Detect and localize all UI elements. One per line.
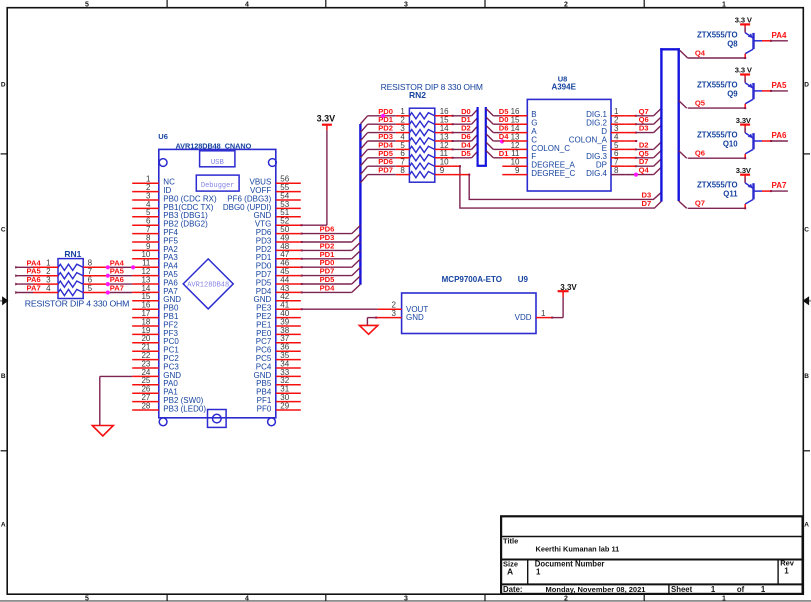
- svg-text:MCP9700A-ETO: MCP9700A-ETO: [442, 275, 502, 284]
- junction dot Q4 at U8 pin 8: [634, 173, 638, 177]
- bus bottom joint: [477, 165, 487, 167]
- border arrow left: [0, 297, 8, 304]
- U6 Debugger box: [196, 175, 239, 191]
- svg-text:D: D: [804, 82, 809, 89]
- wire PA6 RN1 pin 6 to U6: [83, 275, 132, 286]
- border arrow right: [803, 297, 811, 304]
- power symbol 3.3V for U9 VDD: [558, 283, 578, 297]
- svg-text:PA4: PA4: [772, 31, 788, 40]
- svg-text:U6: U6: [158, 132, 168, 141]
- wire U6 pin 24 GND: [100, 376, 132, 425]
- wire PD1 U6 pin 47 to bus: [301, 250, 361, 260]
- wire base Q11 to PA7 label: [762, 181, 788, 192]
- RN2 pin 11 stub: [435, 149, 478, 159]
- IC U9 MCP9700A-ETO body: [402, 293, 536, 334]
- svg-text:A: A: [507, 567, 513, 577]
- svg-text:ZTX555/TO: ZTX555/TO: [697, 30, 738, 39]
- wire PA7 RN1 pin 5 to U6: [83, 284, 132, 295]
- svg-text:Q7: Q7: [695, 199, 705, 208]
- U8 pin 4 unconnected stub end: [625, 140, 637, 142]
- svg-text:1: 1: [722, 2, 726, 9]
- wire PD5 U6 pin 44 to bus: [301, 275, 361, 285]
- svg-text:Keerthi Kumanan lab 11: Keerthi Kumanan lab 11: [536, 545, 620, 554]
- wire bus to U8 left pin 16: [486, 107, 509, 116]
- svg-text:Sheet: Sheet: [671, 585, 693, 594]
- wire PD2 bus to RN2 pin 3: [360, 124, 409, 141]
- IC U6 AVR128DB48_CNANO body: [159, 149, 276, 425]
- svg-text:1: 1: [784, 567, 789, 576]
- wire PD1 bus to RN2 pin 2: [360, 115, 409, 132]
- wire 3.3V to U6 VTG pin 52: [301, 130, 327, 226]
- svg-text:29: 29: [280, 401, 289, 410]
- svg-text:ZTX555/TO: ZTX555/TO: [697, 181, 738, 190]
- wire PA4 RN1 pin 8 to U6: [83, 258, 132, 269]
- wire PD3 U6 pin 49 to bus: [301, 233, 361, 243]
- bus right segment between RN2 and U8: [485, 107, 487, 166]
- ground symbol below U9: [359, 325, 377, 334]
- svg-text:COLON_C: COLON_C: [531, 144, 570, 153]
- svg-text:GND: GND: [406, 313, 424, 322]
- wire PD3 bus to RN2 pin 4: [360, 132, 409, 149]
- svg-text:Title: Title: [503, 537, 518, 546]
- resistor network RN2 body: [409, 108, 434, 182]
- svg-text:D3: D3: [641, 190, 651, 199]
- svg-text:8: 8: [614, 166, 619, 175]
- wire D7 from RN2 pin 10 down and right: [452, 165, 662, 208]
- wire D3 U8 pin 3 to bus: [625, 124, 661, 134]
- svg-text:D: D: [1, 82, 6, 89]
- wire PD0 U6 pin 46 to bus: [301, 258, 361, 268]
- svg-text:U9: U9: [518, 275, 529, 284]
- wire Q7 U8 pin 1 to bus: [625, 107, 661, 117]
- junction dot PA4 net: [131, 265, 135, 269]
- power symbol 3.3V for Q10: [736, 116, 752, 133]
- svg-text:VDD: VDD: [515, 313, 532, 322]
- svg-text:3: 3: [404, 2, 408, 9]
- svg-text:1: 1: [541, 309, 546, 318]
- ground symbol below RN1: [92, 426, 113, 437]
- svg-text:USB: USB: [211, 159, 225, 167]
- border zone letters left: [1, 82, 6, 529]
- svg-text:PF0: PF0: [257, 404, 272, 413]
- svg-text:2: 2: [564, 2, 568, 9]
- wire PA4 to RN1 pin 1: [15, 258, 58, 268]
- RN2 pin 13 stub: [435, 132, 478, 142]
- wire PD2 U6 pin 48 to bus: [301, 241, 361, 251]
- svg-text:PD4: PD4: [320, 283, 336, 292]
- wire PD4 U6 pin 43 to bus: [301, 283, 361, 293]
- svg-text:3.3V: 3.3V: [736, 166, 752, 175]
- svg-text:3.3 V: 3.3 V: [735, 16, 753, 25]
- wire PD0 bus to RN2 pin 1: [360, 107, 409, 124]
- wire U6 PE3 pin 41 to U9 VOUT pin 2: [301, 301, 402, 311]
- transistor Q9 ZTX555/TO PNP: [745, 83, 762, 108]
- svg-text:PB3 (LED0): PB3 (LED0): [163, 404, 206, 413]
- wire PD7 bus to RN2 pin 8: [360, 166, 409, 183]
- svg-text:Q8: Q8: [727, 39, 738, 48]
- svg-text:D3: D3: [639, 124, 649, 133]
- bus right line to transistors: [678, 48, 680, 201]
- svg-text:8: 8: [400, 166, 405, 175]
- svg-text:RN1: RN1: [64, 249, 81, 259]
- wire Q4 bus to Q8 collector: [688, 48, 747, 59]
- border zone numbers top: [85, 2, 726, 9]
- U6 bottom mounting square: [208, 410, 227, 428]
- power symbol 3.3V for Q11: [736, 166, 752, 183]
- svg-text:5: 5: [88, 284, 93, 293]
- svg-text:PA5: PA5: [772, 81, 788, 90]
- svg-text:D1: D1: [499, 149, 509, 158]
- svg-text:RESISTOR DIP 4 330 OHM: RESISTOR DIP 4 330 OHM: [25, 298, 130, 308]
- svg-text:D5: D5: [461, 149, 471, 158]
- title block: [501, 516, 802, 594]
- svg-text:PA7: PA7: [772, 181, 788, 190]
- svg-text:PD7: PD7: [378, 166, 393, 175]
- wire bus to U8 left pin 13: [486, 132, 509, 141]
- svg-text:Q9: Q9: [727, 90, 738, 99]
- svg-text:PA6: PA6: [772, 131, 788, 140]
- border zone ticks sides: [1, 154, 810, 451]
- wire base Q10 to PA6 label: [762, 131, 788, 142]
- border zone letters right: [804, 82, 809, 529]
- wire PD6 U6 pin 50 to bus: [301, 225, 361, 235]
- svg-text:DEGREE_C: DEGREE_C: [531, 169, 575, 178]
- bus tap to Q7 wire: [679, 201, 687, 208]
- bus left line to transistors: [660, 48, 662, 201]
- svg-text:1: 1: [536, 568, 541, 577]
- RN2 pin 9 stub: [435, 166, 452, 175]
- wire bus to U8 left pin 12: [486, 142, 502, 149]
- svg-text:A: A: [1, 521, 6, 528]
- svg-text:1: 1: [761, 585, 766, 594]
- wire PD7 U6 pin 45 to bus: [301, 267, 361, 277]
- svg-text:Date:: Date:: [503, 585, 523, 594]
- svg-text:3: 3: [392, 309, 397, 318]
- wire D7 U8 pin 7 to bus: [625, 157, 661, 167]
- wire D2 U8 pin 5 to bus: [625, 140, 661, 150]
- wire Q6 U8 pin 2 to bus: [625, 115, 661, 125]
- RN2 pin 12 stub: [435, 140, 478, 150]
- svg-text:C: C: [804, 226, 809, 233]
- svg-text:Q10: Q10: [723, 140, 738, 149]
- svg-text:Document Number: Document Number: [535, 559, 605, 568]
- svg-text:Q11: Q11: [723, 190, 738, 199]
- transistor Q11 ZTX555/TO PNP: [745, 183, 762, 208]
- wire Q5 bus to Q9 collector: [688, 99, 747, 110]
- wire D3 from RN2 pin 9 down and right: [452, 174, 662, 200]
- svg-text:4: 4: [245, 2, 249, 9]
- RN2 pin 10 stub: [435, 158, 452, 167]
- wire Q7 bus to Q11 collector: [688, 199, 747, 210]
- svg-text:3.3V: 3.3V: [736, 116, 752, 125]
- wire Q6 bus to Q10 collector: [688, 149, 747, 160]
- svg-text:1: 1: [722, 596, 726, 602]
- RN2 pin 14 stub: [435, 124, 478, 134]
- title block labels: [503, 537, 795, 595]
- wire PA7 to RN1 pin 4: [15, 284, 58, 294]
- svg-text:4: 4: [245, 596, 249, 602]
- wire PD5 bus to RN2 pin 6: [360, 149, 409, 166]
- svg-text:B: B: [1, 373, 6, 380]
- U6 left pin stubs and numbers: [132, 175, 159, 411]
- bus tap to Q5 wire: [679, 101, 687, 109]
- U6 chip diamond symbol: [183, 259, 233, 309]
- junction dot PD0 at RN2: [381, 114, 385, 118]
- svg-text:2: 2: [564, 596, 568, 602]
- svg-text:3.3V: 3.3V: [317, 114, 336, 124]
- U6 left pin names: [163, 178, 217, 414]
- wire bus to U8 left pin 14: [486, 124, 508, 133]
- svg-text:A: A: [804, 521, 809, 528]
- bus tap to Q6 wire: [679, 151, 687, 159]
- svg-text:5: 5: [85, 596, 89, 602]
- IC U8 A394E body: [527, 99, 611, 191]
- svg-text:RESISTOR DIP 8 330 OHM: RESISTOR DIP 8 330 OHM: [381, 82, 483, 92]
- svg-text:Q4: Q4: [639, 166, 650, 175]
- wire PA5 RN1 pin 7 to U6: [83, 267, 132, 278]
- U8 left pin stubs numbers names: [502, 107, 575, 178]
- U6 USB connector box: [200, 151, 235, 167]
- power symbol 3.3V for Q8: [735, 16, 753, 33]
- svg-text:ZTX555/TO: ZTX555/TO: [697, 131, 738, 140]
- border zone ticks bottom: [167, 594, 644, 601]
- svg-text:28: 28: [141, 401, 150, 410]
- wire base Q8 to PA4 label: [762, 31, 788, 42]
- resistor network RN1 body: [58, 259, 83, 299]
- wire PD4 bus to RN2 pin 5: [360, 140, 409, 157]
- vertical bus PD0-PD7: [359, 124, 361, 285]
- wire Q5 U8 pin 6 to bus: [625, 149, 661, 159]
- svg-text:C: C: [1, 226, 6, 233]
- svg-text:Q4: Q4: [695, 48, 706, 57]
- U8 right pin stubs numbers names: [569, 107, 626, 178]
- transistor Q8 ZTX555/TO PNP: [745, 33, 762, 58]
- svg-text:of: of: [737, 585, 745, 594]
- power symbol 3.3V for Q9: [735, 66, 753, 83]
- border zone ticks top: [167, 0, 644, 8]
- svg-text:Monday, November 08, 2021: Monday, November 08, 2021: [546, 585, 646, 594]
- svg-text:AVR128DB48: AVR128DB48: [187, 282, 229, 290]
- border zone numbers bottom: [85, 596, 726, 602]
- svg-text:3.3 V: 3.3 V: [735, 66, 753, 75]
- svg-text:PA7: PA7: [110, 284, 124, 293]
- svg-text:Q5: Q5: [695, 99, 706, 108]
- svg-text:9: 9: [440, 166, 445, 175]
- svg-text:Q6: Q6: [695, 149, 705, 158]
- U6 right pin names: [223, 178, 272, 414]
- wire PA5 to RN1 pin 2: [15, 267, 58, 277]
- wire base Q9 to PA5 label: [762, 81, 788, 92]
- svg-text:RN2: RN2: [409, 90, 426, 100]
- svg-text:1: 1: [711, 585, 716, 594]
- wire U9 GND pin 3 to ground: [367, 309, 401, 325]
- wire Q4 U8 pin 8 to bus: [625, 166, 661, 176]
- svg-text:Debugger: Debugger: [201, 182, 235, 190]
- svg-text:9: 9: [515, 166, 520, 175]
- svg-text:ZTX555/TO: ZTX555/TO: [697, 81, 738, 90]
- wire PD6 bus to RN2 pin 7: [360, 157, 409, 174]
- bus tap to Q4 wire: [680, 50, 688, 58]
- RN2 pin 15 stub: [435, 115, 478, 125]
- U9 pin names: [406, 305, 532, 322]
- U6 right pin stubs and numbers: [276, 175, 301, 411]
- svg-text:AVR128DB48_CNANO: AVR128DB48_CNANO: [176, 142, 252, 151]
- svg-text:5: 5: [85, 2, 89, 9]
- svg-text:DIG.4: DIG.4: [586, 169, 607, 178]
- wire PA6 to RN1 pin 3: [15, 275, 58, 285]
- svg-text:D7: D7: [641, 199, 651, 208]
- svg-text:3: 3: [404, 596, 408, 602]
- power symbol 3.3V for U6 VTG: [317, 114, 336, 131]
- svg-text:4: 4: [46, 284, 51, 293]
- bus top joint: [660, 48, 680, 50]
- svg-text:A394E: A394E: [551, 83, 576, 92]
- svg-text:B: B: [804, 373, 809, 380]
- wire U9 VDD pin 1 to 3.3V: [536, 297, 563, 319]
- junction dot D4 at U8: [500, 139, 504, 143]
- RN2 pin 16 stub: [435, 107, 478, 117]
- wire bus to U8 left pin 11: [486, 149, 509, 158]
- transistor Q10 ZTX555/TO PNP: [745, 133, 762, 158]
- svg-text:PA7: PA7: [26, 284, 40, 293]
- wire bus to U8 left pin 15: [486, 115, 508, 124]
- bus left segment between RN2 and U8: [477, 107, 479, 166]
